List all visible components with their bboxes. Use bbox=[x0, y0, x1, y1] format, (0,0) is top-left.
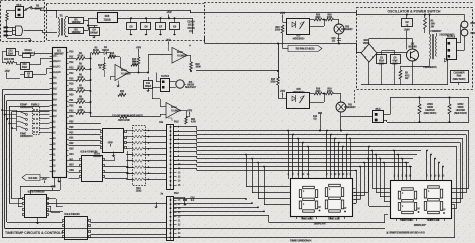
svg-text:916Ω: 916Ω bbox=[109, 56, 115, 58]
svg-text:P10: P10 bbox=[69, 51, 74, 53]
svg-text:47Ω: 47Ω bbox=[405, 74, 410, 77]
svg-text:250V: 250V bbox=[392, 63, 398, 65]
svg-text:500W: 500W bbox=[457, 107, 464, 109]
RA1 resistor 7 bbox=[134, 166, 144, 169]
page top dashed border bbox=[204, 2, 473, 4]
diode D3 bbox=[445, 59, 448, 62]
+5V comparator b bbox=[168, 42, 170, 45]
DISP1 labels bbox=[302, 218, 312, 220]
RA1 resistor 4 bbox=[134, 147, 144, 150]
svg-text:K04: K04 bbox=[69, 153, 74, 156]
svg-text:P06: P06 bbox=[53, 111, 58, 113]
svg-text:HTR2: HTR2 bbox=[457, 104, 464, 106]
wires IC3 interconnect bbox=[47, 198, 56, 200]
R20 resistor bbox=[120, 116, 128, 119]
svg-text:+5V: +5V bbox=[136, 45, 141, 49]
svg-text:MSLPD: MSLPD bbox=[53, 61, 61, 63]
wire socket to transformer bbox=[24, 30, 43, 32]
svg-text:UP/DOWN: UP/DOWN bbox=[20, 105, 33, 109]
ground left of PL2 lower bbox=[156, 205, 158, 207]
svg-text:R11 4.7M: R11 4.7M bbox=[4, 58, 14, 61]
svg-text:2700: 2700 bbox=[270, 82, 276, 84]
DISP2 side pins bbox=[388, 188, 391, 190]
+5V rail bbox=[117, 18, 193, 20]
svg-text:+5V: +5V bbox=[4, 69, 9, 73]
svg-text:OSC: OSC bbox=[53, 56, 58, 58]
wire plug left to fuse bbox=[7, 10, 16, 12]
op-amp IC4-c LM339 bbox=[166, 103, 180, 119]
svg-text:(SEE TEXT): (SEE TEXT) bbox=[453, 79, 466, 81]
logic IC2-a 74HC86 bbox=[103, 129, 124, 153]
DISP1 MSD decimal point bbox=[319, 210, 321, 212]
wires sensor to comparators bbox=[156, 81, 161, 83]
resistor R23 2700 bbox=[281, 25, 284, 33]
+5V flag c bbox=[189, 112, 191, 115]
svg-text:4700: 4700 bbox=[327, 90, 333, 93]
display1 right pin stubs bbox=[353, 188, 356, 190]
resistor network RA1 dashed box bbox=[133, 126, 146, 186]
osc bottom rail bbox=[361, 84, 448, 86]
opto-isolator IC8 MOC3010 bbox=[287, 93, 310, 109]
resistor R5 21.3K bbox=[69, 69, 77, 71]
DISP1 bottom pins bbox=[296, 217, 298, 220]
wires IC1 right pins to logic bbox=[69, 123, 101, 125]
capacitor C13 33pF bbox=[21, 63, 30, 70]
switch wires to IC1 pins bbox=[39, 110, 50, 112]
svg-text:100W: 100W bbox=[427, 107, 434, 109]
resistor R12 916 bbox=[108, 56, 116, 59]
transistor Q1 bbox=[407, 49, 419, 61]
heater bottom wire bbox=[384, 120, 387, 122]
svg-text:OSCILLATOR & POWER SWITCH: OSCILLATOR & POWER SWITCH bbox=[388, 9, 441, 13]
svg-text:P20: P20 bbox=[69, 95, 74, 97]
DISP1 side pins bbox=[288, 186, 291, 188]
svg-text:TIME UP/DOWN: TIME UP/DOWN bbox=[290, 239, 311, 243]
capacitor C8 .1 bbox=[25, 72, 33, 78]
power input dashed enclosure bbox=[1, 1, 45, 42]
svg-text:PL2: PL2 bbox=[174, 120, 179, 124]
svg-text:P03: P03 bbox=[53, 94, 58, 96]
TO PIN 17 flag bbox=[288, 46, 322, 52]
wires IC2a right to RA1 bbox=[127, 151, 129, 179]
+5V crystal area bbox=[6, 73, 8, 76]
diodes D4 D5 1N914 bbox=[104, 52, 107, 55]
indicator IND2 bbox=[461, 29, 468, 36]
wire PL2 pin to display2 left route bbox=[174, 215, 269, 217]
svg-text:HTR1: HTR1 bbox=[427, 104, 434, 106]
wires crystal cluster to IC1 bbox=[2, 51, 6, 53]
svg-text:P16: P16 bbox=[69, 84, 74, 86]
svg-text:10K: 10K bbox=[132, 64, 137, 66]
svg-text:UP/DOWN: UP/DOWN bbox=[20, 134, 33, 138]
ground IC1 bbox=[58, 179, 60, 181]
DISP2 digit TEMP LSD bbox=[428, 186, 440, 188]
wires bus to display2 left pins bbox=[372, 151, 374, 189]
IC1 left pin labels bbox=[53, 55, 57, 57]
+5V flag bbox=[168, 15, 170, 19]
bridge rectifier BR1 bbox=[361, 44, 377, 62]
svg-text:* ¼ OF LM339 NOT USED: * ¼ OF LM339 NOT USED bbox=[112, 114, 143, 118]
op-amp IC4-a LM339 bbox=[115, 65, 129, 81]
temp sensor IC5 LM335 bbox=[176, 80, 184, 88]
+5V under IC1 bbox=[44, 181, 46, 184]
wire TR1 bottom to bus bbox=[340, 116, 342, 131]
logic IC2-b 74HC86 bbox=[82, 156, 103, 182]
svg-text:IC4-a: IC4-a bbox=[121, 69, 127, 72]
transformer T1 bbox=[60, 14, 63, 16]
svg-text:▲ SWITCH/DISPLAY BOARD: ▲ SWITCH/DISPLAY BOARD bbox=[386, 231, 425, 235]
transformer T2 secondary bbox=[441, 34, 452, 36]
DISP2 digit TEMP MSD bbox=[402, 188, 414, 190]
cap C15 bbox=[337, 38, 341, 40]
wire switch out to right bbox=[40, 10, 46, 12]
display1 top pin drops bbox=[288, 131, 290, 177]
resistor R2 bbox=[399, 70, 402, 79]
resistor R3 86.6K bbox=[91, 52, 93, 54]
AC line wire to oscillator bbox=[190, 12, 357, 14]
svg-text:To PL3: To PL3 bbox=[161, 75, 170, 78]
heater HTR1 100W bbox=[418, 104, 421, 114]
DISP1 digit TIME LSD bbox=[329, 184, 341, 186]
svg-text:P12: P12 bbox=[69, 62, 74, 64]
svg-text:SEE TEXT: SEE TEXT bbox=[185, 87, 197, 89]
wires bus to display1 left pins bbox=[246, 155, 248, 188]
svg-text:R14: R14 bbox=[120, 90, 125, 93]
svg-text:HEATER: HEATER bbox=[425, 109, 435, 112]
switch S1 ON/OFF bbox=[25, 9, 27, 11]
svg-text:TIME MSD: TIME MSD bbox=[301, 217, 314, 221]
dashed board edge below osc box bbox=[354, 90, 356, 104]
AC return wire to bridge bbox=[205, 43, 357, 45]
wires IC1 left pins to left bus bbox=[2, 89, 49, 91]
svg-text:47µF: 47µF bbox=[392, 59, 398, 62]
wires left bus to IC3a bbox=[12, 198, 23, 200]
display signal bus wires bbox=[174, 126, 197, 128]
svg-text:10.9K: 10.9K bbox=[77, 77, 84, 79]
DISP2 bottom pins bbox=[396, 219, 398, 222]
svg-text:DISPLAY*: DISPLAY* bbox=[314, 221, 328, 225]
transformer T2 primary bbox=[432, 30, 441, 32]
wires IC1 bottom to IC3a bbox=[54, 177, 56, 186]
svg-text:47µF: 47µF bbox=[379, 59, 385, 62]
wires bus to display1 right pins bbox=[356, 171, 358, 204]
oscillator and power switch dashed enclosure bbox=[357, 8, 473, 90]
svg-text:PAN: PAN bbox=[457, 75, 462, 78]
resistor R4 47.1K bbox=[69, 58, 77, 60]
wires IC1 to IC2b bbox=[69, 160, 80, 162]
svg-text:P02: P02 bbox=[53, 89, 58, 91]
svg-text:120Ω: 120Ω bbox=[136, 191, 142, 193]
ground op-amp a bbox=[118, 84, 120, 86]
connector To PL3 (osc) bbox=[447, 39, 457, 60]
internal top rail bbox=[357, 14, 460, 16]
svg-text:(SEE TEXT): (SEE TEXT) bbox=[424, 113, 437, 115]
svg-text:C13: C13 bbox=[22, 64, 27, 66]
svg-text:5.36K: 5.36K bbox=[77, 88, 84, 90]
DISP2 MSD decimal point bbox=[418, 211, 420, 213]
RA1 resistor 2 bbox=[134, 135, 144, 138]
svg-text:IND1: IND1 bbox=[471, 22, 475, 25]
svg-text:P05: P05 bbox=[53, 105, 58, 107]
wire plug to switch bbox=[23, 10, 25, 12]
svg-text:21.3K: 21.3K bbox=[77, 66, 84, 68]
bypass capacitor C8 bbox=[170, 23, 180, 30]
svg-text:+5V: +5V bbox=[280, 89, 285, 93]
feedback label bbox=[425, 66, 435, 68]
svg-text:PDI: PDI bbox=[53, 78, 57, 80]
resistor R22 100K bbox=[187, 55, 191, 57]
connector To PL3 sensor bbox=[161, 79, 170, 92]
resistors R18 R19 bbox=[314, 92, 322, 95]
bottom wire to displays y228 bbox=[5, 228, 385, 230]
svg-text:TEMP LSD: TEMP LSD bbox=[426, 218, 439, 222]
svg-text:33pF: 33pF bbox=[22, 67, 28, 69]
capacitor C4 1000uF bbox=[90, 28, 100, 36]
indicator IND1 bbox=[461, 21, 468, 28]
AC socket shape bbox=[16, 26, 23, 36]
bottom horizontal wire 1 bbox=[5, 228, 63, 230]
wire C2 to Q1 base bbox=[406, 31, 408, 50]
svg-text:1000µF: 1000µF bbox=[90, 32, 99, 35]
connector PL4 bbox=[373, 111, 384, 123]
wire bridge top to Q1 bbox=[368, 39, 370, 45]
svg-text:(SEE TEXT): (SEE TEXT) bbox=[454, 113, 467, 115]
svg-text:C5: C5 bbox=[129, 25, 133, 29]
svg-text:100µF: 100µF bbox=[145, 86, 152, 88]
svg-text:+5V: +5V bbox=[50, 184, 55, 188]
resistor R9 1.27K bbox=[69, 112, 77, 114]
svg-text:100K: 100K bbox=[196, 67, 202, 69]
svg-text:IC4-c: IC4-c bbox=[171, 106, 177, 109]
svg-text:P15: P15 bbox=[69, 78, 74, 80]
svg-text:MOC3010: MOC3010 bbox=[293, 36, 305, 40]
svg-text:C9: C9 bbox=[173, 25, 177, 29]
svg-text:K03: K03 bbox=[69, 149, 74, 151]
plug PL1 bbox=[16, 7, 24, 18]
svg-text:2700: 2700 bbox=[275, 30, 281, 32]
R13 resistor below opamp a bbox=[118, 94, 126, 97]
svg-text:P07: P07 bbox=[53, 116, 58, 118]
diode D2 1N4002 bbox=[69, 28, 84, 34]
wires IC3a to PL2 bbox=[47, 203, 167, 205]
triac TR2 bbox=[334, 24, 344, 34]
wires IC2b right pins to RA1 bus bbox=[105, 160, 114, 162]
capacitor C2 bbox=[402, 19, 413, 27]
svg-text:+5V: +5V bbox=[107, 140, 112, 144]
+5V flag upper opto bbox=[282, 15, 284, 18]
wire AC into transformer bbox=[46, 10, 57, 12]
svg-text:1N914: 1N914 bbox=[102, 49, 110, 52]
svg-text:IC4-b: IC4-b bbox=[177, 51, 183, 54]
bus right-end drops to display2 right pins bbox=[468, 131, 470, 189]
svg-text:250V: 250V bbox=[404, 29, 410, 32]
bypass capacitor C6 bbox=[141, 23, 151, 30]
DISP2 digit pin marks bbox=[402, 192, 403, 194]
wire to comparator b bbox=[148, 55, 150, 73]
display board DISP1 outline bbox=[291, 179, 353, 217]
svg-text:TEMP MSD: TEMP MSD bbox=[400, 218, 414, 222]
svg-text:C7: C7 bbox=[159, 25, 163, 29]
capacitor C11 100uF bbox=[144, 81, 153, 89]
svg-text:1K: 1K bbox=[121, 94, 124, 96]
svg-text:4.7K: 4.7K bbox=[191, 121, 196, 124]
svg-text:HEATER: HEATER bbox=[456, 109, 466, 112]
svg-text:T1: T1 bbox=[59, 14, 63, 18]
wire R23 down to flag bbox=[282, 33, 284, 40]
logic IC3-a 74HC00 bbox=[25, 195, 47, 218]
bus junction dots bbox=[1, 109, 3, 111]
R21 resistor bbox=[185, 117, 187, 124]
svg-text:+5V: +5V bbox=[187, 108, 192, 112]
opto-isolator IC7 MOC3010 bbox=[287, 19, 310, 35]
wires secondary to indicators bbox=[456, 42, 461, 44]
svg-text:P01: P01 bbox=[53, 83, 58, 85]
svg-text:R20 1.21K: R20 1.21K bbox=[118, 120, 129, 122]
pin wires to IC2a bbox=[69, 129, 101, 131]
DISP1 digit TIME MSD bbox=[303, 186, 315, 188]
svg-text:DISPLAY*: DISPLAY* bbox=[414, 223, 428, 227]
bypass capacitor C7 bbox=[156, 23, 166, 30]
svg-text:+5V: +5V bbox=[280, 11, 285, 15]
svg-text:1N4002: 1N4002 bbox=[71, 20, 81, 24]
svg-text:+5V: +5V bbox=[41, 177, 46, 181]
DISP1 top pins bbox=[288, 176, 290, 179]
wires IC3b out right bbox=[90, 222, 167, 224]
power supply dashed enclosure bbox=[47, 4, 205, 41]
logic IC3-b 74HC00 bbox=[65, 217, 88, 240]
resistor R1 10K bbox=[424, 18, 427, 29]
op-amp IC4-b LM339 bbox=[172, 48, 187, 64]
svg-text:2.61K: 2.61K bbox=[77, 99, 84, 101]
svg-text:C12: C12 bbox=[8, 51, 13, 53]
RA1 resistor 3 bbox=[134, 141, 144, 144]
op-amp c output bbox=[180, 110, 186, 112]
wires PL2 lower strip to stair joints bbox=[174, 198, 246, 200]
svg-text:P22: P22 bbox=[69, 105, 74, 107]
connector PL2 upper strip bbox=[167, 125, 174, 190]
DISP1 LSD decimal point bbox=[344, 211, 346, 213]
temp up/down switch label bbox=[20, 104, 25, 106]
svg-text:P24: P24 bbox=[69, 115, 74, 118]
+5V flag lower opto bbox=[282, 93, 284, 96]
svg-text:C6: C6 bbox=[144, 25, 148, 29]
heater HTR2 500W bbox=[448, 104, 451, 114]
AC line plug prongs bbox=[4, 27, 9, 29]
svg-text:22pF: 22pF bbox=[8, 53, 14, 55]
regulator C3 7805 bbox=[98, 13, 118, 23]
svg-text:IND2: IND2 bbox=[471, 32, 475, 35]
cleaner pan box bbox=[451, 71, 469, 83]
svg-text:GUARD: GUARD bbox=[53, 71, 62, 74]
cap C16 at PL2 bbox=[184, 198, 186, 200]
RA1 resistor 9 bbox=[134, 178, 144, 181]
time up/down label bbox=[20, 133, 25, 135]
svg-text:1.27K: 1.27K bbox=[77, 110, 84, 112]
svg-text:P04: P04 bbox=[53, 100, 58, 102]
R16 resistor bbox=[131, 64, 138, 66]
svg-text:TIME/TEMP CIRCUITS & CONTROLS: TIME/TEMP CIRCUITS & CONTROLS bbox=[5, 231, 64, 235]
RA1 resistor 5 bbox=[134, 154, 144, 157]
capacitor C12 22pF bbox=[7, 49, 16, 56]
svg-text:47.1K: 47.1K bbox=[77, 54, 84, 57]
+5V mid flag bbox=[138, 49, 140, 52]
wire opto out to triac gate bbox=[310, 26, 324, 28]
svg-text:P14: P14 bbox=[69, 72, 74, 75]
svg-text:DANGER!!: DANGER!! bbox=[344, 106, 356, 109]
TIME UP/DOWN label bbox=[290, 239, 307, 241]
diode D1 1N4002 bbox=[69, 18, 84, 24]
cap values note bbox=[188, 21, 195, 23]
ladder bus wire bbox=[90, 53, 92, 117]
RA1 resistor 8 bbox=[134, 172, 144, 175]
vertical AC tee down to IC8 bbox=[278, 44, 280, 78]
resistor R10 4.7M bbox=[6, 61, 14, 64]
svg-text:1N4002: 1N4002 bbox=[71, 30, 81, 34]
svg-text:PL1: PL1 bbox=[16, 3, 22, 7]
svg-text:K02: K02 bbox=[69, 143, 74, 145]
fuse F1 bbox=[6, 13, 9, 21]
resistor R13 bbox=[103, 63, 105, 70]
svg-text:PL2: PL2 bbox=[174, 191, 179, 195]
AC wire jog from switch bbox=[46, 10, 190, 12]
resistor R15 pullup bbox=[137, 57, 140, 65]
DISP2 labels bbox=[401, 219, 411, 221]
svg-text:86.6K: 86.6K bbox=[93, 50, 100, 52]
cap C14 bbox=[318, 112, 322, 114]
svg-text:(1): (1) bbox=[332, 41, 335, 43]
resistor R17 2700 bbox=[277, 77, 280, 85]
display board DISP2 outline bbox=[391, 181, 452, 219]
switch display board note bbox=[386, 231, 418, 233]
bottom long wire TIME UP/DOWN bbox=[2, 237, 455, 239]
display2 top pin drops bbox=[394, 151, 396, 178]
svg-text:IC1 K01: IC1 K01 bbox=[29, 177, 39, 180]
+5V IC2 area bbox=[110, 144, 112, 147]
left vertical bus wires bbox=[2, 90, 4, 238]
wires diodes to +5 node bbox=[84, 20, 89, 22]
DISP2 top pins bbox=[394, 178, 396, 181]
svg-text:7805: 7805 bbox=[103, 18, 110, 22]
RA1 resistor 6 bbox=[134, 160, 144, 163]
svg-text:RA1: RA1 bbox=[136, 187, 141, 190]
bypass capacitor C5 bbox=[127, 23, 137, 30]
DISP1 digit pin marks bbox=[303, 190, 304, 192]
switch contacts temp/time bbox=[16, 110, 18, 131]
crystal XTAL1 bbox=[25, 49, 31, 51]
resistor R8 2.61K bbox=[69, 102, 77, 104]
resistor R6 10.9K bbox=[69, 80, 77, 82]
svg-text:CLEANER: CLEANER bbox=[453, 72, 465, 75]
svg-text:TIME LSD: TIME LSD bbox=[328, 217, 340, 221]
IC1 K01 signal flag bbox=[22, 175, 40, 181]
connector TMPL2 strip bbox=[33, 107, 40, 135]
svg-text:DP: DP bbox=[417, 209, 421, 211]
svg-text:1K: 1K bbox=[99, 67, 102, 69]
svg-text:DP: DP bbox=[442, 210, 446, 212]
caps C5a C6a 47uF bbox=[377, 55, 387, 64]
triac TR1 bbox=[336, 102, 346, 112]
svg-text:DP: DP bbox=[343, 208, 347, 210]
svg-text:To PL3: To PL3 bbox=[447, 35, 456, 39]
heater top wire bbox=[384, 114, 390, 116]
resistor R7 5.36K bbox=[69, 90, 77, 92]
svg-text:P27: P27 bbox=[69, 132, 74, 134]
svg-text:+5V: +5V bbox=[165, 38, 170, 42]
clock chip IC1 MM5387 bbox=[53, 48, 67, 178]
svg-text:DP: DP bbox=[318, 207, 322, 209]
svg-text:PL4: PL4 bbox=[376, 107, 381, 111]
DISP2 LSD decimal point bbox=[443, 212, 445, 214]
